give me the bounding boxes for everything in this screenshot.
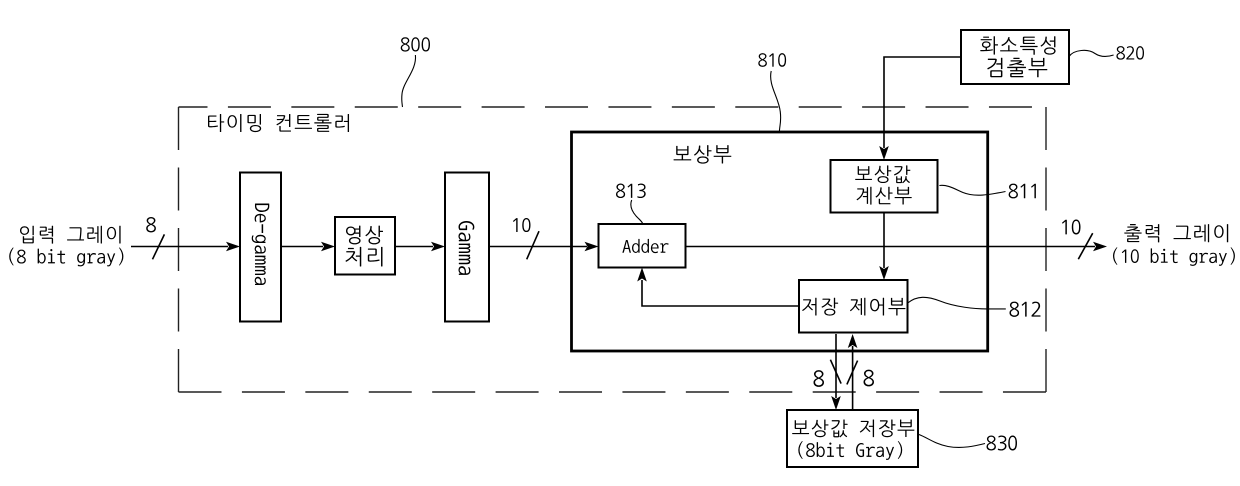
- box: storage controller 812: [799, 280, 908, 333]
- wire: calculator to storage controller: [883, 213, 885, 269]
- label: (8bit Gray) (line2): [798, 441, 902, 460]
- callout curve: 810: [771, 71, 781, 132]
- ref numeral: 810: [758, 53, 786, 67]
- box: pixel characteristic detector 820: [961, 30, 1069, 84]
- bus label: 10 (output): [1062, 220, 1081, 235]
- label: calculator (line2): [857, 187, 912, 205]
- arrowhead: output: [1093, 242, 1107, 252]
- bus slash: output 10-bit: [1078, 233, 1092, 259]
- wire: storage controller down to memory: [835, 334, 837, 398]
- wire: Gamma to Adder: [489, 246, 587, 248]
- ref numeral: 820: [1116, 46, 1144, 60]
- arrowhead: into Adder bottom: [637, 268, 647, 282]
- wire: pixel-characteristic detector to compensation calculator: [884, 57, 961, 148]
- bus slash: input 8-bit: [153, 234, 165, 259]
- label: output gray (Korean): [1124, 224, 1228, 242]
- bus slash: 10-bit after Gamma: [527, 231, 539, 259]
- arrowhead: into compensation memory: [831, 396, 841, 410]
- ref numeral: 800: [401, 37, 430, 51]
- ref numeral: 830: [987, 436, 1017, 451]
- ref numeral: 811: [1009, 184, 1036, 199]
- label: processing (line2): [345, 247, 382, 267]
- callout curve: 811: [939, 185, 1005, 195]
- bus label: 8 (input): [146, 217, 156, 232]
- arrowhead: into compensation calculator: [879, 146, 889, 160]
- box: Gamma: [445, 173, 489, 322]
- arrowhead: into Gamma: [431, 242, 445, 252]
- box: Adder 813: [599, 224, 686, 268]
- label: input gray (Korean): [20, 226, 121, 244]
- box: compensator 810 (solid outer): [572, 132, 988, 351]
- label: De-gamma (vertical): [252, 204, 270, 285]
- label: compensation value (line1): [855, 165, 910, 183]
- bus hash: up 8-bit: [847, 361, 858, 385]
- bus label: 8 (down): [814, 370, 825, 387]
- dashed box: timing controller boundary (800): [179, 107, 1047, 392]
- wire: input line: [131, 246, 228, 248]
- box: compensation value memory 830: [787, 410, 918, 467]
- label: storage controller (Korean): [802, 298, 905, 316]
- bus hash: down 8-bit: [830, 360, 841, 384]
- arrowhead: into storage controller: [879, 266, 889, 280]
- callout curve: 830: [919, 435, 985, 448]
- ref numeral: 813: [616, 184, 646, 199]
- wire: Adder to output: [686, 246, 1096, 248]
- box: compensation value calculator 811: [831, 160, 938, 213]
- arrowhead: into storage controller bottom: [848, 334, 858, 348]
- arrowhead: into Adder: [585, 242, 599, 252]
- label: (10 bit gray): [1113, 247, 1235, 266]
- wire: storage controller to Adder feedback: [642, 280, 799, 306]
- label: timing controller (Korean): [208, 114, 349, 132]
- wire: image-proc to Gamma: [395, 246, 433, 248]
- wire: memory up to storage controller: [852, 346, 854, 410]
- callout curve: 820: [1069, 50, 1114, 56]
- callout curve: 800: [402, 55, 416, 107]
- label: image (line1): [346, 226, 383, 245]
- arrowhead: into image-proc box: [321, 242, 335, 252]
- label: pixel characteristic (line1): [980, 36, 1055, 55]
- box: De-gamma: [240, 173, 281, 322]
- arrowhead: into De-gamma: [226, 242, 240, 252]
- ref numeral: 812: [1010, 302, 1041, 317]
- label: (8 bit gray): [9, 248, 123, 267]
- wire: De-gamma to image-proc: [281, 246, 323, 248]
- label: Adder: [622, 239, 668, 253]
- label: compensator (Korean): [674, 145, 732, 164]
- bus label: 10 (after Gamma): [513, 218, 530, 232]
- bus label: 8 (up): [864, 370, 875, 387]
- label: Gamma (vertical): [458, 221, 474, 275]
- label: detector (line2): [987, 58, 1047, 78]
- box: image processing: [335, 217, 395, 275]
- callout curve: 813: [631, 200, 643, 224]
- label: compensation value memory (line1): [792, 419, 914, 437]
- callout curve: 812: [908, 297, 1006, 309]
